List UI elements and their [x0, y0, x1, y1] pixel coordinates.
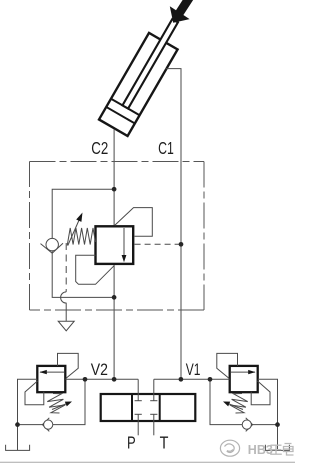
counterbalance valve main square [96, 226, 134, 264]
counterbalance spring [67, 228, 95, 246]
watermark glyph wang [270, 444, 293, 456]
wire: V2 square to main line [65, 378, 138, 380]
wire: V1 line into valve port [153, 379, 155, 394]
wire: P port stub [137, 421, 139, 435]
svg-text:V2: V2 [91, 360, 108, 379]
upper pilot passage loop [115, 208, 153, 237]
svg-text:V1: V1 [186, 360, 201, 379]
junction node V2 check riser [83, 377, 88, 382]
wire C2: cylinder cap port down to V2 line [113, 129, 115, 379]
junction node V1 check riser [208, 377, 213, 382]
tank symbol V1 side [265, 445, 289, 451]
pilot line (dashed) to C1 [135, 243, 181, 245]
relief valve V2 upper pilot loop [58, 353, 79, 378]
svg-text:C1: C1 [158, 138, 174, 158]
wire: V1 square to main line [154, 378, 230, 380]
blocked port symbols in centre section [137, 394, 139, 401]
svg-text:C2: C2 [91, 138, 108, 158]
relief valve V1 square [230, 366, 258, 392]
vent symbol (open triangle) [58, 321, 74, 331]
svg-text:HB3: HB3 [248, 443, 273, 457]
wire: T port stub [153, 421, 155, 435]
directional control valve body [101, 394, 196, 421]
junction node V1 main line [179, 377, 184, 382]
drain line hop over branch wire [61, 292, 67, 321]
flow arrow inside relief valve V1 [231, 371, 255, 373]
wire: tank line through check valve V2 [18, 379, 86, 424]
junction node pilot/C1 [179, 242, 184, 247]
svg-text:T: T [160, 432, 169, 452]
wire C1: cylinder rod port down to V1 line [166, 69, 181, 380]
relief valve V1 upper pilot loop [217, 353, 238, 378]
tank symbol V2 side [6, 445, 30, 451]
flow arrow inside counterbalance valve [123, 228, 125, 257]
manifold boundary (dashed) [30, 162, 205, 311]
relief valve V1 spring arrow [227, 403, 243, 410]
lower pilot passage loop [76, 255, 114, 284]
relief valve V2 spring arrow [52, 403, 68, 410]
check valve (ball and seat) [41, 243, 64, 253]
watermark logo [220, 440, 239, 456]
wire: V2 inlet to tank branch [18, 379, 38, 450]
wire: branch C2 to check valve [52, 189, 114, 297]
hydraulic cylinder [99, 12, 189, 136]
relief valve V2 spring [47, 394, 65, 414]
watermark glyph yong [284, 444, 294, 456]
relief valve V1 lower pilot loop [251, 381, 270, 405]
wire: V1 inlet to tank branch [258, 379, 278, 450]
force arrow on rod [170, 0, 193, 23]
junction node at tank branch V1 [275, 422, 280, 427]
drain line (dashed) from spring [65, 243, 67, 292]
relief valve V2 lower pilot loop [25, 381, 44, 405]
anti-cavitation check valve V1 [246, 418, 253, 432]
junction node V2 main line [112, 377, 117, 382]
junction node on C2 upper [112, 187, 117, 192]
wire: tank line through check valve V1 [210, 379, 278, 424]
junction node at tank branch V2 [15, 422, 20, 427]
anti-cavitation check valve V2 [42, 418, 49, 432]
page bottom hairline [0, 461, 295, 463]
svg-text:P: P [127, 432, 136, 452]
relief valve V1 spring [230, 394, 248, 414]
wire: V2 line into valve port [137, 379, 139, 394]
directional valve section dividers [131, 394, 133, 421]
flow arrow inside relief valve V2 [40, 371, 64, 373]
spring adjustment arrow [68, 220, 80, 246]
junction node on C2 lower [112, 295, 117, 300]
relief valve V2 square [37, 366, 65, 392]
